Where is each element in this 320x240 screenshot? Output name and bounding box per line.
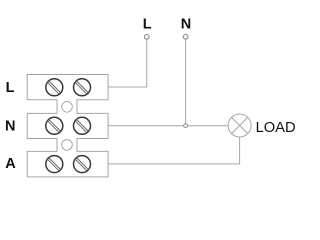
wire A to load bottom [108, 137, 240, 164]
screw terminal L-1 [46, 79, 63, 96]
wire N horizontal to load [108, 125, 228, 127]
terminal L open circle [144, 34, 149, 39]
terminal N open circle [183, 34, 188, 39]
terminal strip body [27, 75, 108, 177]
wire N vertical [185, 39, 187, 124]
screw terminal A-2 [74, 156, 91, 173]
wire L vertical [108, 39, 147, 87]
mounting hole between L and N [62, 102, 73, 113]
svg-text:L: L [143, 17, 152, 33]
svg-text:L: L [6, 80, 15, 96]
svg-text:LOAD: LOAD [256, 120, 296, 136]
screw terminal A-1 [46, 156, 63, 173]
junction node on N wire [184, 124, 188, 128]
svg-text:A: A [5, 156, 16, 172]
screw terminal L-2 [74, 79, 91, 96]
screw terminal N-2 [74, 117, 91, 134]
svg-text:N: N [181, 17, 191, 33]
svg-text:N: N [5, 119, 15, 135]
mounting hole between N and A [62, 140, 73, 151]
screw terminal N-1 [46, 117, 63, 134]
lamp LOAD symbol [228, 114, 251, 137]
